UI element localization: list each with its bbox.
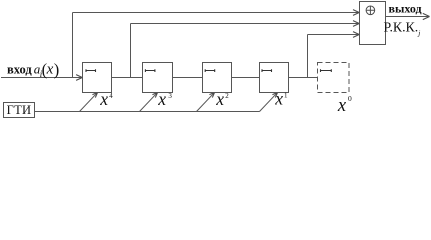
svg-text:x: x [274,88,283,108]
label x^1 [274,88,288,108]
arrowhead clock into T4 [272,93,277,98]
wire clock tap to T1 [80,93,98,112]
wire feedback C to adder [308,34,359,36]
arrowhead feedback A into adder [353,10,359,16]
wire feedback B to adder [131,23,359,25]
label x^2 [215,89,229,109]
wire clock tap to T2 [140,93,158,112]
wire register T4 output to x0 cell [289,77,318,79]
register cell T2 [143,63,173,93]
svg-text:): ) [54,60,60,79]
label x^4 [99,89,113,109]
register cell T4 [260,63,289,93]
svg-text:2: 2 [225,92,229,100]
XOR symbol circle-plus [366,6,375,15]
arrowhead feedback B into adder [353,21,359,27]
wire adder output [386,16,430,18]
adder XOR box [360,2,386,45]
svg-text:4: 4 [109,92,113,100]
arrowhead clock into T1 [92,93,97,98]
arrowhead clock into T3 [209,93,214,98]
svg-text:Р.К.К.: Р.К.К. [384,20,419,35]
arrowhead clock into T2 [152,93,157,98]
label x^0 [337,94,352,116]
delay symbol in T4 [262,69,272,72]
svg-text:вход: вход [7,62,32,76]
label input: вход ai(x) [7,60,59,79]
delay symbol in T1 [86,69,96,72]
svg-text:x: x [215,89,224,109]
delay symbol in T3 [205,69,215,72]
wire register T3 output to T4 [232,77,260,79]
label output: выход [389,1,422,15]
svg-text:x: x [46,61,54,77]
wire clock bus from GTI [35,111,260,113]
svg-text:выход: выход [389,1,422,15]
svg-text:x: x [157,89,166,109]
register cell T3 [203,63,232,93]
clock generator GTI box [4,103,35,118]
wire register T2 output to T3 [173,77,203,79]
register cell T1 [83,63,112,93]
svg-text:j: j [417,29,420,38]
arrowhead adder output [423,13,430,19]
wire feedback A to adder [73,12,359,14]
arrowhead feedback C into adder [353,32,359,38]
wire register T1 output to T2 [112,77,143,79]
wire clock tap to T4 [260,93,278,112]
node C junction vertical riser after T4 [307,35,309,78]
virtual cell x0 dashed [318,63,350,93]
svg-text:x: x [337,96,347,116]
delay symbol in x0 cell [321,69,332,72]
wire input horizontal [1,77,82,79]
svg-text:3: 3 [168,92,172,100]
label clock generator: ГТИ [7,103,32,117]
node A input feedback junction vertical riser [72,13,74,78]
label output: Р.К.К. j [384,20,421,38]
wire clock tap to T3 [197,93,215,112]
svg-text:0: 0 [348,94,352,103]
svg-text:x: x [99,89,108,109]
svg-text:ГТИ: ГТИ [7,103,32,117]
arrowhead input into T1 [76,75,82,81]
svg-text:1: 1 [284,91,288,99]
delay symbol in T2 [145,69,155,72]
label x^3 [157,89,172,109]
node B junction vertical riser after T1 [130,24,132,78]
